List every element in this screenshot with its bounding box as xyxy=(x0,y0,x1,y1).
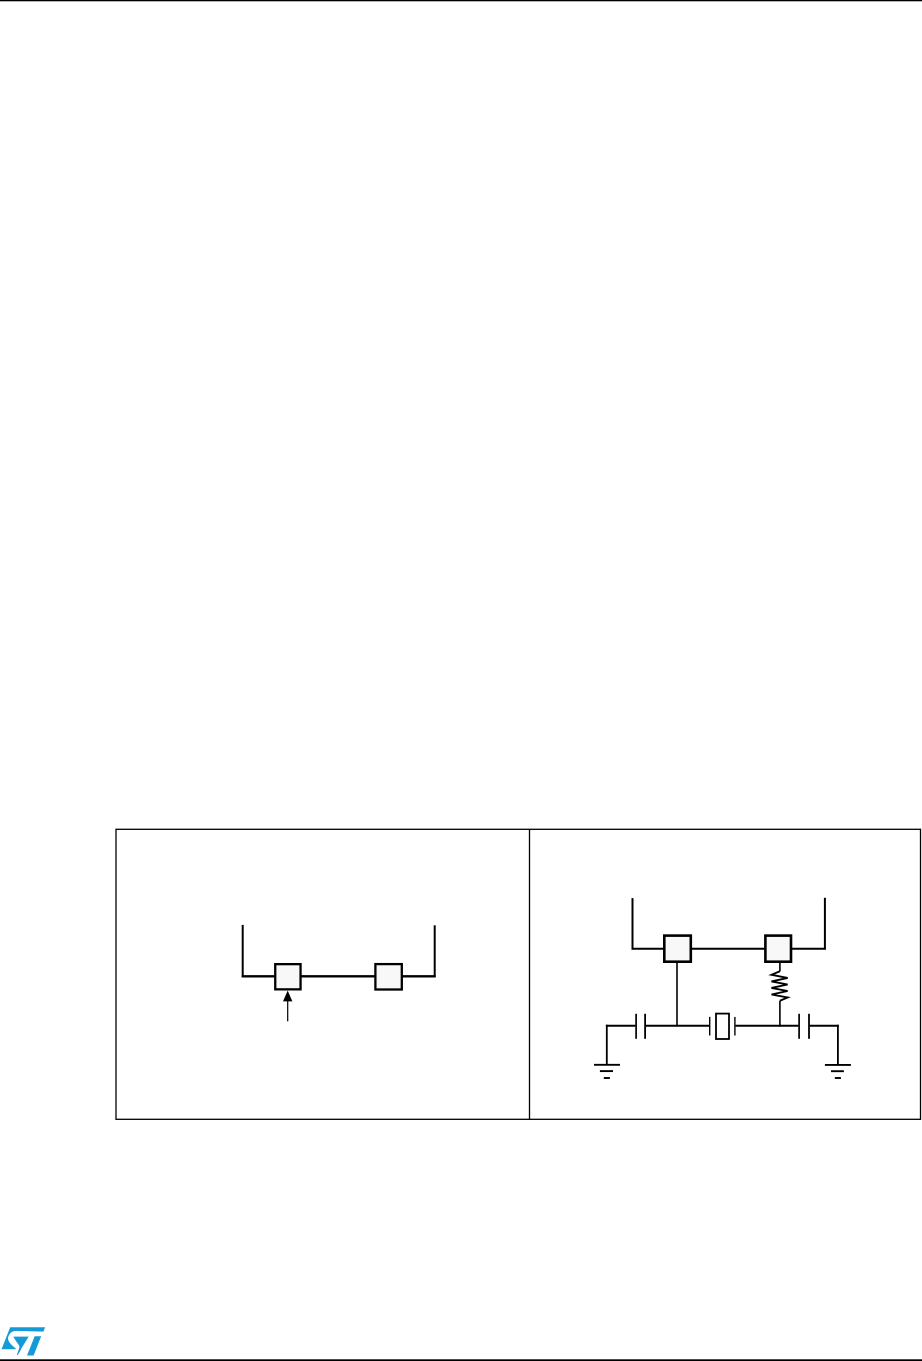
wire: left chip edge xyxy=(242,925,244,978)
wire: right chip edge xyxy=(824,898,826,950)
pin box OSC_IN xyxy=(275,964,300,989)
wire: left chip edge xyxy=(632,898,634,950)
crystal X1 plates xyxy=(710,1017,735,1036)
pin box OSC_OUT xyxy=(765,936,791,962)
wire: left ground drop xyxy=(606,1025,608,1065)
wire: resistor down to node B xyxy=(779,1001,781,1027)
wire: pin line OSC_IN to OSC_OUT xyxy=(632,948,826,950)
wire: right chip edge xyxy=(434,925,436,977)
wire: right ground drop xyxy=(837,1025,839,1065)
wire: OSC_IN down to node A xyxy=(676,963,678,1027)
ST logo xyxy=(2,1327,46,1355)
figure frame xyxy=(116,829,921,1119)
pin box OSC_OUT xyxy=(375,964,401,989)
resistor RExt xyxy=(772,971,788,1001)
wire: crystal to CL2 (node B) xyxy=(736,1025,799,1027)
wire: OSC_OUT down to resistor xyxy=(779,963,781,972)
ground (right) xyxy=(825,1065,851,1078)
capacitor CL2 xyxy=(799,1014,809,1039)
ground (left) xyxy=(594,1065,620,1078)
crystal X1 body xyxy=(716,1014,729,1039)
header rule xyxy=(0,0,922,1)
pin box OSC_IN xyxy=(664,936,691,962)
figure column divider xyxy=(529,829,531,1119)
wire: CL2 to ground rail xyxy=(810,1025,839,1027)
capacitor CL1 xyxy=(636,1014,645,1039)
wire: pin baseline OSC_IN to OSC_OUT xyxy=(242,975,436,977)
wire: CL1 to crystal (node A) xyxy=(646,1025,709,1027)
external clock source arrow xyxy=(283,991,292,1022)
footer rule xyxy=(0,1359,922,1361)
wire: ground rail to CL1 xyxy=(606,1025,635,1027)
